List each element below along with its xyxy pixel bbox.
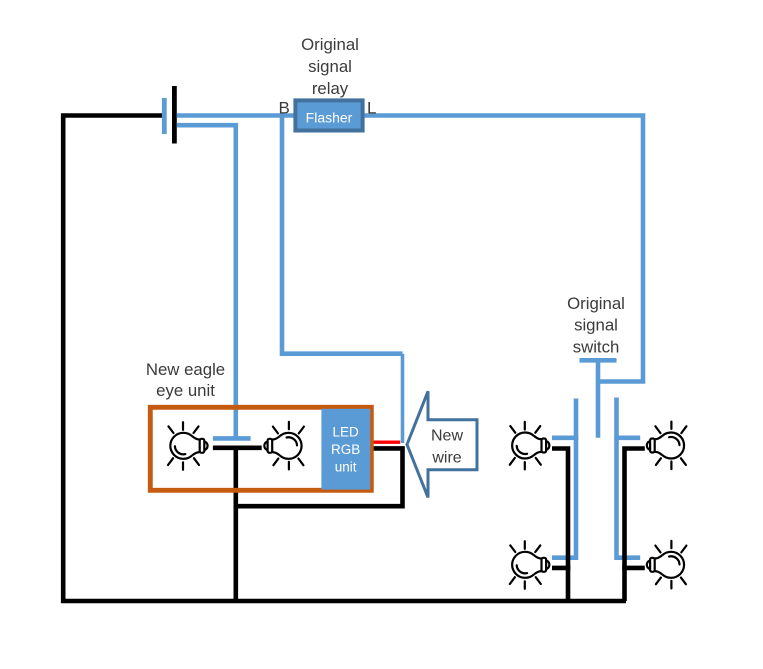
switch stem (blue) [596, 362, 601, 438]
wire: flasher terminal L to switch (blue) [365, 116, 644, 382]
svg-text:unit: unit [335, 460, 357, 475]
battery long plate (black) [172, 86, 177, 144]
wire: LED RGB unit ground return (black) [236, 448, 403, 506]
wire: left signal feed (blue) to bulbs [552, 399, 576, 558]
lamp DS5 (rear left signal) [510, 541, 550, 589]
flasher relay box [295, 100, 362, 130]
svg-text:L: L [367, 99, 376, 118]
wire: eagle eye blue contact bar [213, 436, 251, 441]
svg-text:relay: relay [312, 79, 349, 98]
wire: battery positive to flasher terminal B (blue) [177, 113, 294, 118]
new eagle eye unit enclosure (orange box) [150, 407, 371, 490]
wire: node B down and across to LED RGB unit (blue, new wire) [282, 116, 403, 354]
wire: left top bulb arm (blue) [552, 435, 578, 440]
new wire callout arrow [407, 391, 477, 497]
svg-text:New: New [431, 427, 463, 444]
wire: battery negative top wire, left border, bottom ground bus (black loop) [63, 116, 626, 602]
svg-text:eye unit: eye unit [156, 381, 215, 400]
svg-text:LED: LED [332, 425, 359, 440]
wire: top-right signal bulb ground (black) [625, 449, 645, 602]
svg-text:signal: signal [574, 316, 618, 335]
wire: bottom-right signal bulb ground (black) [622, 566, 645, 571]
svg-text:New eagle: New eagle [146, 360, 225, 379]
wire: right top bulb arm (blue) [614, 435, 640, 440]
svg-text:Original: Original [567, 294, 625, 313]
switch contact bar (blue) [580, 358, 617, 363]
svg-text:signal: signal [308, 57, 352, 76]
svg-text:B: B [279, 99, 290, 118]
lamp DS6 (rear right signal) [647, 541, 687, 589]
lamp DS4 (front right signal) [647, 422, 687, 470]
svg-text:Flasher: Flasher [306, 109, 353, 125]
wire: new wire vertical drop to red lead junction [401, 354, 405, 443]
wire: top-left signal bulb ground (black) [552, 449, 568, 602]
wire: battery positive feed down to eagle eye unit (blue) [177, 125, 236, 438]
lamp DS2 (eagle eye right bulb) [264, 422, 304, 470]
LED RGB unit U1 [321, 409, 370, 490]
battery short plate (blue) [162, 98, 167, 134]
wire: eagle eye black bar between bulbs [213, 445, 262, 450]
wire: bottom-left signal bulb ground (black) [552, 566, 570, 571]
svg-text:wire: wire [431, 450, 461, 467]
wire: red lead from LED RGB unit [374, 441, 401, 444]
wire: eagle eye ground drop to bus (black) [234, 448, 239, 601]
wire: right signal feed (blue) to bulbs [617, 398, 641, 558]
svg-text:switch: switch [573, 337, 620, 356]
lamp DS3 (front left signal) [510, 422, 550, 470]
svg-text:Original: Original [301, 35, 359, 54]
lamp DS1 (eagle eye left bulb) [168, 422, 208, 470]
svg-text:RGB: RGB [331, 442, 360, 457]
